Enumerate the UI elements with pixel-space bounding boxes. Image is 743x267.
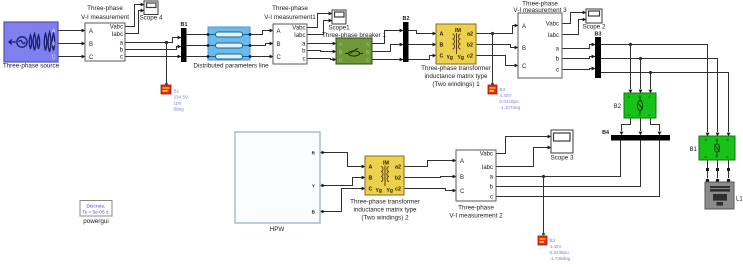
bus bar B2 xyxy=(403,16,410,62)
wire source C to measurement C xyxy=(58,56,85,58)
svg-text:B: B xyxy=(339,49,342,54)
wire HPW B to transformer2 C xyxy=(320,189,365,212)
wire measurement1 a to breaker A xyxy=(307,43,336,45)
three-phase breaker block B2 (green) xyxy=(614,93,656,118)
wire measurement3 Vabc to Scope 2 xyxy=(562,13,583,24)
load flow bus icon B3 (top) xyxy=(488,83,521,110)
wire transformer1 c2 to measurement3 C xyxy=(476,56,518,66)
svg-text:Scope 4: Scope 4 xyxy=(139,15,163,22)
svg-text:HPW: HPW xyxy=(270,226,285,233)
svg-text:A: A xyxy=(440,32,444,38)
svg-text:B3: B3 xyxy=(550,238,556,243)
wire breaker A to bus B2 xyxy=(372,31,403,44)
measurement2 input arrows xyxy=(453,159,457,163)
wire line to measurement1 A xyxy=(250,31,273,35)
svg-text:A: A xyxy=(460,159,464,165)
scope Scope1 xyxy=(328,10,350,32)
svg-text:inductance matrix type: inductance matrix type xyxy=(425,73,488,80)
svg-text:L1: L1 xyxy=(736,197,743,203)
svg-text:4.40V: 4.40V xyxy=(550,244,563,249)
svg-text:Three-phase: Three-phase xyxy=(272,5,308,12)
three-phase breaker block B1 (green) xyxy=(690,136,735,160)
wire line to measurement1 B xyxy=(250,44,273,46)
breaker input arrows xyxy=(333,42,337,46)
wire bus B4 to measurement2 b xyxy=(496,140,641,187)
node junction on a2 wire (B3 drop) xyxy=(491,32,494,35)
wire HPW Y to transformer2 B xyxy=(320,178,365,186)
scope Scope 4 xyxy=(139,1,163,22)
wire B3 phase A to breaker block B1 xyxy=(601,45,708,133)
measurement1 arrows xyxy=(270,29,274,33)
node junction on wire a (B1 drop) xyxy=(165,41,168,44)
three-phase breaker 1 block xyxy=(322,32,387,64)
wire transformer2 c2 to measurement2 C xyxy=(404,189,456,191)
svg-text:V-I measurement 3: V-I measurement 3 xyxy=(513,7,567,14)
svg-text:c2: c2 xyxy=(395,187,401,193)
wire B2 to transformer1 A xyxy=(409,31,437,34)
scope1 arrows xyxy=(329,12,333,16)
wire Vabc to Scope 4 xyxy=(125,5,141,27)
svg-text:Iabc: Iabc xyxy=(294,33,305,39)
wire bus B4 to measurement2 a xyxy=(496,140,621,177)
scope2 arrows xyxy=(583,11,587,15)
bus B4 top arrows xyxy=(620,132,624,136)
svg-text:B3: B3 xyxy=(500,87,506,92)
wire transformer2 b2 to measurement2 B xyxy=(404,177,456,178)
svg-text:Yg: Yg xyxy=(458,55,464,61)
svg-text:Three-phase transformer: Three-phase transformer xyxy=(421,65,491,72)
wire b to bus B1 xyxy=(125,47,181,50)
svg-text:Iabc: Iabc xyxy=(112,32,123,38)
svg-text:c: c xyxy=(490,195,493,201)
wire measurement3 b to bus B3 xyxy=(562,57,595,59)
wire junction drop to load-flow bus icon B3 xyxy=(492,34,494,85)
wire branch A down to breaker block B2 xyxy=(630,45,632,90)
svg-text:IM: IM xyxy=(455,28,461,34)
three-phase V-I measurement1 block xyxy=(264,5,316,64)
svg-text:B2: B2 xyxy=(614,104,622,110)
wire B3 phase B to breaker block B1 xyxy=(601,59,718,133)
svg-text:1pu: 1pu xyxy=(174,101,182,106)
wire breaker C to bus B2 xyxy=(372,59,403,61)
svg-text:A: A xyxy=(339,41,342,46)
distributed parameters line block xyxy=(193,27,269,70)
svg-text:inductance matrix type: inductance matrix type xyxy=(354,207,417,214)
svg-text:B1: B1 xyxy=(174,89,180,94)
svg-text:c: c xyxy=(120,55,123,61)
svg-text:Three-phase transformer: Three-phase transformer xyxy=(350,199,420,206)
wire transformer1 a2 to measurement3 A xyxy=(476,26,518,34)
svg-text:A: A xyxy=(366,41,369,46)
bus bar B3 xyxy=(595,32,602,79)
svg-text:4.40V: 4.40V xyxy=(500,93,513,98)
wire source A to measurement A xyxy=(58,30,85,32)
svg-text:V-I measurement 2: V-I measurement 2 xyxy=(449,213,503,220)
svg-text:Vabc: Vabc xyxy=(480,152,493,158)
svg-text:b2: b2 xyxy=(467,43,473,49)
bus B3 arrows xyxy=(592,43,596,47)
svg-text:B: B xyxy=(89,42,93,48)
svg-text:Distributed parameters line: Distributed parameters line xyxy=(193,63,269,70)
wire B2 bottom a to bus B4 xyxy=(622,118,631,131)
bus bar B4 (horizontal) xyxy=(602,130,670,141)
svg-text:Vabc: Vabc xyxy=(546,22,559,28)
three-phase V-I measurement 3 block xyxy=(513,1,567,79)
svg-text:C: C xyxy=(440,54,444,60)
wire branch B down to breaker block B2 xyxy=(640,59,642,90)
wire source B to measurement B xyxy=(58,43,85,45)
svg-text:Yg: Yg xyxy=(447,55,453,61)
svg-text:Three-phase source: Three-phase source xyxy=(3,63,60,70)
scope4 arrows xyxy=(141,3,145,7)
wire B3 phase C to breaker block B1 xyxy=(601,73,729,133)
svg-text:c: c xyxy=(303,57,306,63)
node junction B3 phase A xyxy=(629,43,632,46)
wire c to bus B1 xyxy=(125,56,181,58)
svg-text:B2: B2 xyxy=(403,16,410,22)
svg-text:V-I measurement1: V-I measurement1 xyxy=(264,14,316,21)
svg-text:(Two windings) 1: (Two windings) 1 xyxy=(432,81,480,88)
breaker B1 top arrows xyxy=(706,133,710,137)
wire measurement1 Iabc to Scope1 xyxy=(307,21,329,35)
svg-text:Scope 3: Scope 3 xyxy=(550,155,574,162)
svg-text:b2: b2 xyxy=(395,176,401,182)
svg-text:B: B xyxy=(366,49,369,54)
node junction B3 phase C xyxy=(649,71,652,74)
three-phase V-I measurement 2 block xyxy=(449,150,503,220)
svg-text:Vabc: Vabc xyxy=(292,26,305,32)
three-phase V-I measurement block xyxy=(81,5,129,61)
wire B1 to line B xyxy=(186,45,208,47)
wire measurement2 Vabc to Scope 3 xyxy=(496,137,548,154)
svg-text:C: C xyxy=(89,55,94,61)
wire breaker B1 to load L1 phase c xyxy=(728,160,730,178)
wire B1 to line A xyxy=(186,34,208,36)
wire junction drop to load-flow bus icon B1 xyxy=(166,43,168,85)
svg-text:a2: a2 xyxy=(467,32,473,38)
wire measurement1 b to breaker B xyxy=(307,51,336,52)
scope Scope 3 xyxy=(550,130,574,162)
svg-text:B: B xyxy=(369,176,373,182)
svg-text:C: C xyxy=(649,95,652,99)
bus B2 arrows xyxy=(400,29,404,33)
svg-text:C: C xyxy=(522,64,527,70)
svg-text:B1: B1 xyxy=(181,22,188,28)
wire transformer1 b2 to measurement3 B xyxy=(476,45,518,48)
bus bar B1 xyxy=(181,22,188,62)
svg-text:c2: c2 xyxy=(467,54,473,60)
bus B1 arrows xyxy=(178,36,182,40)
scope3 arrows xyxy=(548,135,552,139)
svg-text:C: C xyxy=(460,189,465,195)
svg-text:C: C xyxy=(339,57,342,62)
wire breaker B to bus B2 xyxy=(372,45,403,52)
three-phase source block xyxy=(3,22,60,70)
measurement3 input arrows xyxy=(515,24,519,28)
svg-text:-1.107deg: -1.107deg xyxy=(500,105,521,110)
wire measurement2 Iabc to Scope 3 xyxy=(496,148,548,167)
wire branch C down to breaker block B2 xyxy=(650,73,652,90)
wire B1 to line C xyxy=(186,56,208,58)
wire breaker B1 to load L1 phase a xyxy=(707,160,709,178)
svg-text:B1: B1 xyxy=(690,147,698,153)
svg-text:B: B xyxy=(440,43,444,49)
node junction measurement2 a xyxy=(542,175,545,178)
node junction B3 phase B xyxy=(639,57,642,60)
svg-text:Discrete,: Discrete, xyxy=(87,204,106,210)
svg-text:0.0318pu: 0.0318pu xyxy=(500,99,520,104)
wire B2 bottom b to bus B4 xyxy=(640,118,642,131)
svg-text:V-I measurement: V-I measurement xyxy=(81,14,129,21)
svg-text:Three-phase: Three-phase xyxy=(458,205,494,212)
three-phase transformer 1 block xyxy=(421,24,491,88)
load flow bus icon B1 xyxy=(161,83,189,112)
HPW subsystem block xyxy=(235,132,320,233)
svg-text:A: A xyxy=(522,24,526,30)
wire measurement3 c to bus B3 xyxy=(562,69,595,70)
svg-text:A: A xyxy=(369,165,373,171)
wire Iabc to Scope 4 xyxy=(125,11,141,34)
wire measurement1 Vabc to Scope1 xyxy=(307,14,329,28)
svg-text:Three-phase: Three-phase xyxy=(87,5,123,12)
input port arrows xyxy=(82,3,731,214)
svg-text:Iabc: Iabc xyxy=(482,165,493,171)
svg-text:Yg: Yg xyxy=(376,188,382,194)
transformer2 input arrows xyxy=(362,165,366,169)
svg-text:Ts = 5e-05 s.: Ts = 5e-05 s. xyxy=(82,210,110,216)
wire measurement3 a to bus B3 xyxy=(562,45,595,49)
transformer1 input arrows xyxy=(433,32,437,36)
wire line to measurement1 C xyxy=(250,56,273,58)
breaker B2 top arrows xyxy=(629,90,633,94)
three-phase load block L1 xyxy=(705,168,743,209)
svg-text:C: C xyxy=(366,57,369,62)
scope Scope 2 xyxy=(582,9,606,31)
wire a to bus B1 xyxy=(125,38,181,43)
svg-text:Scope1: Scope1 xyxy=(328,25,350,32)
svg-text:C: C xyxy=(727,138,730,142)
measurement input arrows xyxy=(82,29,86,33)
svg-text:a2: a2 xyxy=(395,165,401,171)
wire transformer2 a2 to measurement2 A xyxy=(404,161,456,167)
svg-text:C: C xyxy=(369,187,373,193)
svg-text:Scope 2: Scope 2 xyxy=(582,24,606,31)
svg-text:Iabc: Iabc xyxy=(548,33,559,39)
svg-text:A: A xyxy=(89,29,93,35)
svg-text:B3: B3 xyxy=(595,32,602,38)
svg-text:C: C xyxy=(52,55,56,61)
svg-text:(Two windings) 2: (Two windings) 2 xyxy=(361,215,409,222)
wire HPW R to transformer2 A xyxy=(320,153,365,167)
svg-text:5deg: 5deg xyxy=(174,107,185,112)
svg-text:B: B xyxy=(460,175,464,181)
wire measurement1 c to breaker C xyxy=(307,59,336,60)
svg-text:C: C xyxy=(277,55,282,61)
three-phase transformer 2 block xyxy=(350,156,420,222)
svg-text:234.5V: 234.5V xyxy=(174,95,189,100)
wire B2 bottom c to bus B4 xyxy=(651,118,660,131)
wire junction drop to load-flow bus icon B3-2 xyxy=(543,177,545,235)
svg-text:c: c xyxy=(649,113,651,117)
svg-text:A: A xyxy=(277,29,281,35)
svg-text:powergui: powergui xyxy=(83,218,109,225)
powergui block xyxy=(80,201,112,226)
svg-text:Y: Y xyxy=(312,184,315,189)
svg-text:B: B xyxy=(522,46,526,52)
svg-text:0.3238pu: 0.3238pu xyxy=(550,250,570,255)
svg-text:B: B xyxy=(277,42,281,48)
svg-text:Vabc: Vabc xyxy=(110,25,123,31)
wire B2 to transformer1 B xyxy=(409,44,437,46)
svg-text:-1.736deg: -1.736deg xyxy=(550,256,571,261)
wire bus B4 to measurement2 c xyxy=(496,140,660,197)
svg-text:Yg: Yg xyxy=(387,188,393,194)
load flow bus icon B3 (bottom) xyxy=(538,233,571,261)
wire measurement3 Iabc to Scope 2 xyxy=(562,20,583,35)
wire breaker B1 to load L1 phase b xyxy=(717,160,719,178)
HPW output arrows xyxy=(322,151,326,155)
wire B2 to transformer1 C xyxy=(409,56,437,60)
svg-text:c: c xyxy=(727,155,729,159)
svg-text:IM: IM xyxy=(383,161,389,167)
svg-text:B4: B4 xyxy=(602,130,609,136)
svg-text:c: c xyxy=(556,68,559,74)
